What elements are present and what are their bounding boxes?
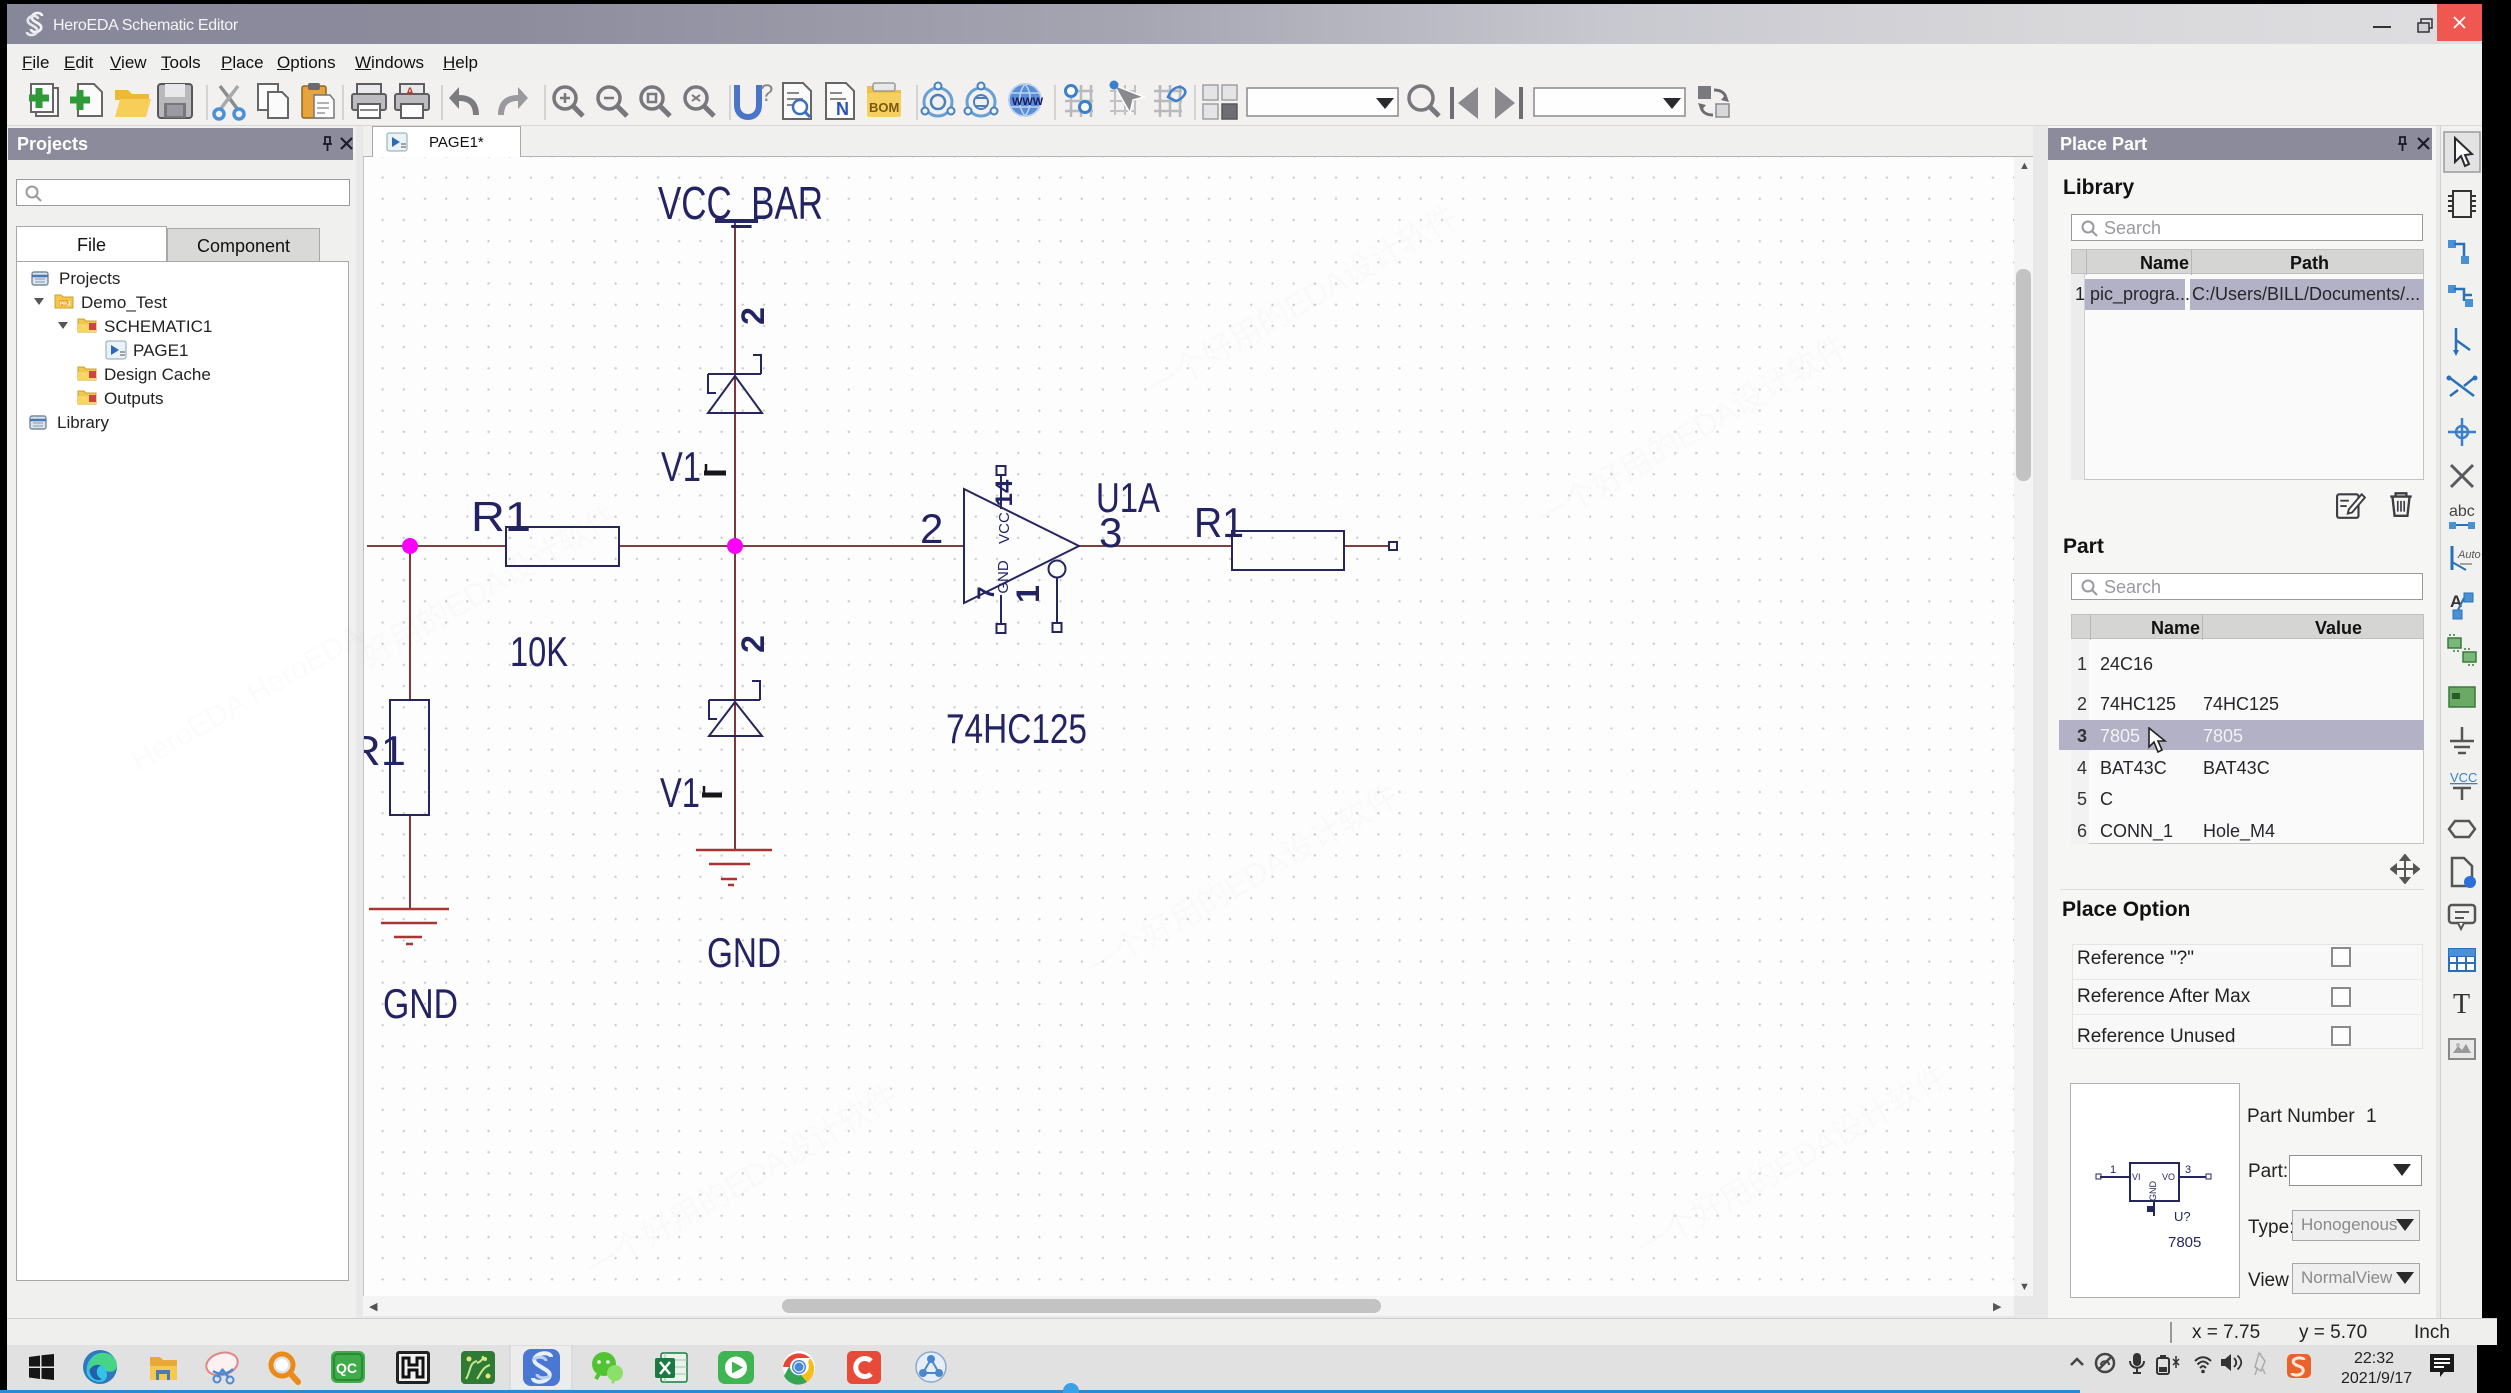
svg-text:2: 2 <box>920 505 943 552</box>
svg-text:1: 1 <box>2110 1164 2116 1176</box>
svg-text:N: N <box>836 99 849 119</box>
svg-text:abc: abc <box>2449 503 2475 520</box>
svg-text:R1: R1 <box>1194 499 1244 546</box>
svg-text:74HC125: 74HC125 <box>946 705 1087 752</box>
svg-text:VCC_BAR: VCC_BAR <box>658 177 823 229</box>
svg-text:14: 14 <box>991 479 1018 506</box>
svg-text:?: ? <box>760 80 773 107</box>
svg-text:V1: V1 <box>661 443 701 490</box>
svg-text:T: T <box>2453 989 2470 1020</box>
svg-text:QC: QC <box>336 1360 357 1376</box>
svg-text:GND: GND <box>383 980 458 1027</box>
svg-text:7805: 7805 <box>2168 1234 2201 1251</box>
svg-text:Auto: Auto <box>2457 549 2481 561</box>
svg-text:GND: GND <box>995 560 1012 594</box>
svg-text:V1: V1 <box>660 769 700 816</box>
svg-text:2: 2 <box>735 307 771 325</box>
svg-text:A: A <box>2450 592 2462 611</box>
svg-text:BOM: BOM <box>869 100 899 115</box>
svg-text:WWW: WWW <box>1012 96 1044 108</box>
svg-text:PRJ: PRJ <box>60 302 71 308</box>
svg-text:U?: U? <box>2174 1209 2191 1224</box>
svg-text:R1: R1 <box>364 727 406 774</box>
svg-text:A: A <box>406 86 414 98</box>
svg-text:VCC: VCC <box>2450 770 2477 785</box>
svg-text:R1: R1 <box>471 493 531 540</box>
svg-text:10K: 10K <box>510 628 568 675</box>
svg-text:GND: GND <box>2148 1181 2158 1202</box>
svg-text:VCC: VCC <box>996 512 1013 544</box>
svg-text:VO: VO <box>2162 1172 2175 1182</box>
svg-text:2021/9/17: 2021/9/17 <box>2341 1370 2412 1387</box>
svg-text:2: 2 <box>735 635 771 653</box>
svg-text:3: 3 <box>2185 1164 2191 1176</box>
svg-text:22:32: 22:32 <box>2354 1350 2394 1367</box>
svg-text:VI: VI <box>2132 1172 2141 1182</box>
svg-text:GND: GND <box>707 929 781 976</box>
svg-text:1: 1 <box>1010 585 1046 603</box>
svg-text:3: 3 <box>1099 509 1122 556</box>
